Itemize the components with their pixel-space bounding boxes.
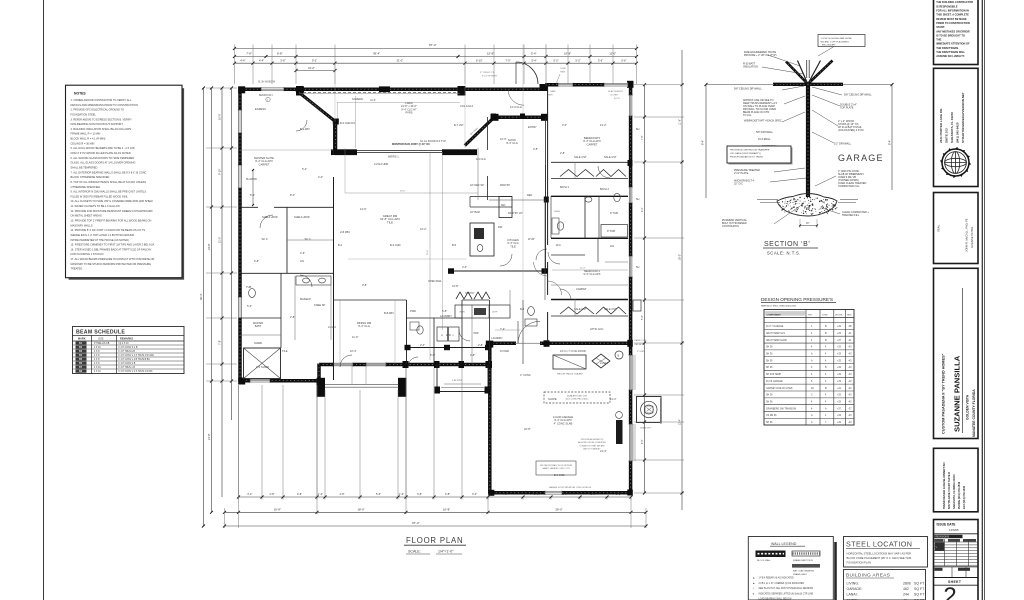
svg-text:RECON TRUSS TOA APX: RECON TRUSS TOA APX <box>557 373 583 376</box>
svg-text:9'-10": 9'-10" <box>218 168 222 175</box>
svg-text:CORE: CORE <box>560 68 566 70</box>
svg-text:2x6 FBC: 2x6 FBC <box>340 230 350 234</box>
svg-text:THE BUILDING CONTRACTOR: THE BUILDING CONTRACTOR <box>936 0 973 4</box>
svg-text:SL ACCESSOR: SL ACCESSOR <box>608 90 623 93</box>
svg-text:12'-2": 12'-2" <box>610 397 617 401</box>
svg-text:32" O/C: 32" O/C <box>734 183 743 186</box>
svg-text:4'-8": 4'-8" <box>470 353 475 357</box>
svg-text:FRAME WALL R = 11 MIN: FRAME WALL R = 11 MIN <box>71 132 101 136</box>
svg-text:SLOPE: SLOPE <box>548 397 557 401</box>
svg-text:SEAL: SEAL <box>937 224 941 232</box>
svg-text:IS RESPONSIBLE: IS RESPONSIBLE <box>936 4 958 8</box>
svg-text:9'-4" CLG: 9'-4" CLG <box>506 141 518 145</box>
svg-text:PDR: PDR <box>474 333 479 335</box>
svg-text:ANY MISTAKES OR ERROR: ANY MISTAKES OR ERROR <box>936 29 970 33</box>
svg-text:5H: 5H <box>636 265 639 269</box>
svg-text:CKTP: CKTP <box>492 312 498 314</box>
svg-text:SHELF+ROD: SHELF+ROD <box>294 215 310 219</box>
svg-text:SH 36: SH 36 <box>766 354 773 356</box>
svg-text:SALE CST: SALE CST <box>574 307 587 311</box>
svg-text:▲: ▲ <box>753 577 756 580</box>
svg-text:NON-BEARING NON KNOCKOUT SUPPO: NON-BEARING NON KNOCKOUT SUPPORT <box>71 122 124 126</box>
svg-text:CARPET: CARPET <box>259 162 270 166</box>
svg-text:COMPACTED FILL: COMPACTED FILL <box>838 185 860 188</box>
svg-text:5'-2": 5'-2" <box>302 167 307 171</box>
svg-text:CONTINUOUS: CONTINUOUS <box>722 225 739 228</box>
svg-text:SH 4X5 TEMP: SH 4X5 TEMP <box>766 374 782 376</box>
svg-text:F 4 P CONV 1 B: F 4 P CONV 1 B <box>119 363 136 365</box>
svg-text:OPEN RAIL: OPEN RAIL <box>428 279 442 283</box>
svg-text:15'-8": 15'-8" <box>487 52 494 56</box>
svg-text:2'-4": 2'-4" <box>420 343 425 347</box>
svg-text:LAUNDRY: LAUNDRY <box>491 337 503 340</box>
svg-text:TREATED: TREATED <box>71 267 83 271</box>
svg-text:(COLOCATED) 4 P OC: (COLOCATED) 4 P OC <box>838 129 864 132</box>
svg-text:MAKEUP: MAKEUP <box>300 297 311 301</box>
svg-text:ALMOND CROSS LOWERING: ALMOND CROSS LOWERING <box>578 441 606 444</box>
svg-text:10'-0": 10'-0" <box>500 137 507 141</box>
svg-text:4'-8": 4'-8" <box>340 493 345 496</box>
svg-text:16": 16" <box>806 223 810 225</box>
svg-text:OF LOADS (UPLIFT/GRAVITY): OF LOADS (UPLIFT/GRAVITY) <box>730 152 761 155</box>
svg-text:B-5: B-5 <box>452 243 457 247</box>
svg-text:ZONE: ZONE <box>822 314 828 316</box>
svg-text:SCALE: N.T.S.: SCALE: N.T.S. <box>767 251 801 256</box>
svg-text:5/8" CEILING DRYWALL: 5/8" CEILING DRYWALL <box>734 88 762 91</box>
svg-text:5'-2": 5'-2" <box>576 58 581 62</box>
svg-text:GARNEY DOE 3/4 LITES: GARNEY DOE 3/4 LITES <box>766 387 793 390</box>
svg-text:5'-4": 5'-4" <box>532 58 537 62</box>
svg-text:31'-2": 31'-2" <box>308 66 315 70</box>
svg-text:2-2x10: 2-2x10 <box>328 325 336 329</box>
svg-text:4 X 8: 4 X 8 <box>94 351 100 353</box>
svg-text:BEAM SCHEDULE: BEAM SCHEDULE <box>76 329 125 335</box>
svg-text:3'-8": 3'-8" <box>445 493 450 496</box>
svg-text:8'-4": 8'-4" <box>701 140 705 145</box>
svg-text:TO LVL: TO LVL <box>743 114 752 117</box>
svg-text:6. ALL SLIDING GLASS DOORS TO: 6. ALL SLIDING GLASS DOORS TO HAVE TEMPE… <box>71 156 135 160</box>
svg-text:2-2x12: 2-2x12 <box>600 361 608 365</box>
svg-text:TRIM: TRIM <box>560 72 565 74</box>
svg-text:4 X 8: 4 X 8 <box>94 363 100 365</box>
svg-text:5'-6": 5'-6" <box>430 353 435 357</box>
svg-text:LAUNDRY: LAUNDRY <box>440 315 452 318</box>
svg-text:SHELF+ROD: SHELF+ROD <box>262 215 278 219</box>
svg-text:20'-8": 20'-8" <box>524 427 531 431</box>
svg-text:W.I.C.: W.I.C. <box>305 238 312 241</box>
svg-text:5'-8": 5'-8" <box>442 309 447 313</box>
svg-text:FOUNDATION STEEL: FOUNDATION STEEL <box>71 112 97 116</box>
svg-text:SCREEN: SCREEN <box>352 97 363 101</box>
svg-text:GOLDEN VISTA: GOLDEN VISTA <box>966 394 970 420</box>
svg-text:GROSS: GROSS <box>835 314 843 316</box>
svg-text:F 4 P CONV L 4 X TRUS 4 W GRL: F 4 P CONV L 4 X TRUS 4 W GRL <box>119 355 155 357</box>
svg-text:CARPET: CARPET <box>576 287 587 291</box>
svg-text:NOTES: NOTES <box>74 92 86 96</box>
svg-text:COL 12x12: COL 12x12 <box>460 104 474 108</box>
svg-text:3'-4": 3'-4" <box>472 493 477 496</box>
svg-text:1 ROW OF 8d RING NAIL DETAIL: 1 ROW OF 8d RING NAIL DETAIL <box>821 37 854 40</box>
svg-text:STEEL LOCATION: STEEL LOCATION <box>846 540 912 549</box>
svg-text:12. PROVIDE FOR MOISTURE RESIS: 12. PROVIDE FOR MOISTURE RESISTANT GREEN… <box>71 209 153 213</box>
svg-text:WEDGE EXCL 1 2' TOP LAYER 1 4: WEDGE EXCL 1 2' TOP LAYER 1 4 BOTTOM ARO… <box>71 233 135 237</box>
svg-text:BATH: BATH <box>255 325 261 328</box>
svg-text:FILLED W 3000 PSI REBAR FILLED: FILLED W 3000 PSI REBAR FILLED WOOD GINL <box>71 194 129 198</box>
svg-text:2'-8": 2'-8" <box>478 343 483 347</box>
svg-text:STUARTOFERRERA#VERIZON.NET: STUARTOFERRERA#VERIZON.NET <box>961 92 965 143</box>
svg-text:2421 PORTER LAKE DR.: 2421 PORTER LAKE DR. <box>939 108 943 143</box>
svg-text:SQ FT: SQ FT <box>914 582 925 586</box>
svg-text:JOHN R. McCALL, PhD, PE: JOHN R. McCALL, PhD, PE <box>965 218 969 252</box>
svg-text:THE DRAFTSMAN WILL: THE DRAFTSMAN WILL <box>936 50 965 54</box>
svg-text:THE: THE <box>936 38 941 42</box>
svg-text:W.I.C.: W.I.C. <box>262 238 269 241</box>
svg-text:5/8" CEILING DRYWALL: 5/8" CEILING DRYWALL <box>844 94 872 97</box>
svg-text:B-2 OHD 8-0: B-2 OHD 8-0 <box>340 121 356 125</box>
svg-text:4'-4": 4'-4" <box>240 58 245 62</box>
svg-text:F 4 P CONV F 1 B: F 4 P CONV F 1 B <box>119 347 138 349</box>
svg-text:18'-0": 18'-0" <box>358 508 365 512</box>
svg-text:4. BUILDING INSULATION SHALL B: 4. BUILDING INSULATION SHALL BE AS FOLLO… <box>71 127 132 131</box>
svg-text:3'-6": 3'-6" <box>591 493 596 496</box>
svg-text:GARAGE DOOR TAP APX AT LITES G: GARAGE DOOR TAP APX AT LITES GOING IN <box>549 486 592 489</box>
svg-text:OTHERWISE SPECIFIED: OTHERWISE SPECIFIED <box>71 185 101 189</box>
svg-text:12'-0 CLG: 12'-0 CLG <box>510 105 522 109</box>
svg-text:2 FB 1 pc 1 FT 4 REBAR (4) AS: 2 FB 1 pc 1 FT 4 REBAR (4) AS INDICATED <box>759 582 805 585</box>
svg-text:INTIRE PERIMETER AT THE HOUSE: INTIRE PERIMETER AT THE HOUSE (AS NOTED) <box>71 238 130 242</box>
svg-text:PANTRY: PANTRY <box>465 292 475 295</box>
svg-text:PARTIALLY ENCLOSED BUILDING: PARTIALLY ENCLOSED BUILDING <box>761 305 796 308</box>
svg-text:4" CONC SLAB: 4" CONC SLAB <box>554 421 573 425</box>
svg-text:9'-0 TYP HGHT: 9'-0 TYP HGHT <box>482 76 498 78</box>
svg-text:31'-0": 31'-0" <box>397 58 404 62</box>
svg-text:GARAGE:: GARAGE: <box>847 587 863 591</box>
svg-text:12/5/05: 12/5/05 <box>949 528 959 532</box>
svg-text:REF: REF <box>527 193 533 197</box>
svg-text:THIS SHEET. A COMPLETE: THIS SHEET. A COMPLETE <box>936 13 969 17</box>
svg-text:3'-8": 3'-8" <box>534 493 539 496</box>
svg-text:20'-0": 20'-0" <box>427 249 429 255</box>
svg-text:PRIOR TO CONSTRUCTION: PRIOR TO CONSTRUCTION <box>936 21 970 25</box>
svg-text:4 X 10: 4 X 10 <box>94 371 101 373</box>
svg-text:F 4 P CONV L 4 B TRUS B BC: F 4 P CONV L 4 B TRUS B BC <box>119 359 151 361</box>
svg-text:11'-0": 11'-0" <box>352 335 358 339</box>
svg-text:21'-4": 21'-4" <box>600 449 607 453</box>
svg-text:PANTRY 24": PANTRY 24" <box>508 211 523 215</box>
svg-text:7'-8": 7'-8" <box>642 135 644 140</box>
svg-text:PROVIDE + 2" 28" OC (TYP): PROVIDE + 2" 28" OC (TYP) <box>744 54 777 57</box>
svg-text:5'-4": 5'-4" <box>642 315 644 320</box>
svg-text:5'-6": 5'-6" <box>598 58 603 62</box>
svg-text:10'-2": 10'-2" <box>420 227 427 231</box>
svg-text:FOUNDATION PLAN: FOUNDATION PLAN <box>847 561 872 565</box>
svg-text:LIN: LIN <box>300 259 304 263</box>
svg-text:7'-8": 7'-8" <box>246 52 252 56</box>
svg-text:IS TO BE BROUGHT TO: IS TO BE BROUGHT TO <box>936 33 965 37</box>
svg-text:FAX (941) 379-1036: FAX (941) 379-1036 <box>962 485 966 509</box>
svg-text:PROVIDE ALGERIA TOP: PROVIDE ALGERIA TOP <box>581 438 604 441</box>
svg-text:INDICATES SEPARED LIFTED (4) 8: INDICATES SEPARED LIFTED (4) 8x8x16 CTR … <box>759 592 814 595</box>
svg-text:42" REF SP: 42" REF SP <box>470 183 484 187</box>
svg-text:BLOCK WALL: BLOCK WALL <box>757 559 772 562</box>
svg-text:SHALL BE TEMPERED: SHALL BE TEMPERED <box>71 165 98 169</box>
svg-text:BATH 2: BATH 2 <box>600 187 609 191</box>
svg-text:19'-8": 19'-8" <box>370 100 376 102</box>
svg-text:DRAIN DET: DRAIN DET <box>640 427 652 430</box>
svg-text:FOYER: FOYER <box>500 349 509 353</box>
svg-text:FOR FLOORING 1 STUCCO.: FOR FLOORING 1 STUCCO. <box>71 252 105 256</box>
svg-text:ECOS: ECOS <box>614 98 620 100</box>
svg-text:SH 36: SH 36 <box>766 395 773 397</box>
svg-text:SH 36: SH 36 <box>766 422 773 424</box>
svg-text:29'-0": 29'-0" <box>556 508 563 512</box>
svg-text:8. TOP OF ALL WINDOW HEADS SHA: 8. TOP OF ALL WINDOW HEADS SHALL BE AT 6… <box>71 180 147 184</box>
svg-text:GLASS. ALL GLASS DOORS AT 1/4: GLASS. ALL GLASS DOORS AT 1/4 LOUVER OPE… <box>71 161 136 165</box>
svg-text:11. WATER CLOSETS TO BE 1.6 GA: 11. WATER CLOSETS TO BE 1.6 GALLON <box>71 204 120 208</box>
svg-text:9'-8": 9'-8" <box>362 283 367 287</box>
svg-text:FROM FOUNDATION TO TRUSS: FROM FOUNDATION TO TRUSS <box>730 156 763 159</box>
svg-text:2"x4" PLATE: 2"x4" PLATE <box>734 172 749 175</box>
svg-text:39'-4": 39'-4" <box>373 52 380 56</box>
svg-text:SHWR: SHWR <box>254 341 262 345</box>
svg-text:4'-8": 4'-8" <box>642 439 644 444</box>
svg-text:3'-2": 3'-2" <box>616 493 621 496</box>
svg-text:5'-0": 5'-0" <box>247 304 252 308</box>
svg-text:7'-4": 7'-4" <box>500 327 505 331</box>
svg-text:CUSTOM PASADENA II "BY TREND: CUSTOM PASADENA II "BY TREND HOMES" <box>942 353 946 434</box>
svg-text:11'-4": 11'-4" <box>580 268 586 270</box>
svg-text:FLOOR PLAN: FLOOR PLAN <box>406 536 463 545</box>
svg-text:1 FB 4 REBAR (4) AS INDICATED: 1 FB 4 REBAR (4) AS INDICATED <box>759 577 795 580</box>
svg-text:8'-0": 8'-0" <box>290 193 295 197</box>
svg-text:SH 36: SH 36 <box>766 401 773 403</box>
svg-text:GAME 1 GARAGE CODE 2 CTS: GAME 1 GARAGE CODE 2 CTS <box>542 467 570 470</box>
svg-text:4'-8": 4'-8" <box>297 493 302 496</box>
svg-text:12'-6": 12'-6" <box>360 207 367 211</box>
svg-text:PANTRY: PANTRY <box>500 183 511 187</box>
svg-text:1'-0": 1'-0" <box>318 493 323 496</box>
svg-text:MONITOR BAR JOIST @ 24" OC: MONITOR BAR JOIST @ 24" OC <box>392 143 430 146</box>
svg-text:2'-8": 2'-8" <box>270 493 275 496</box>
svg-text:FRAME PARTITION: FRAME PARTITION <box>793 559 813 562</box>
svg-text:PVRS: PVRS <box>405 111 412 115</box>
svg-text:SL 5H WINDOW: SL 5H WINDOW <box>258 82 276 84</box>
svg-text:11'-0": 11'-0" <box>218 237 222 243</box>
svg-text:SCALE:: SCALE: <box>408 550 421 554</box>
svg-text:SALE CST: SALE CST <box>604 307 617 311</box>
svg-text:TUB: TUB <box>246 285 251 289</box>
svg-text:MANATEE COUNTY FLORIDA: MANATEE COUNTY FLORIDA <box>972 389 976 437</box>
svg-text:F 4 P TRUS A B: F 4 P TRUS A B <box>119 350 136 353</box>
svg-text:B-6 OHD: B-6 OHD <box>554 473 565 477</box>
svg-text:4'-8": 4'-8" <box>503 493 508 496</box>
svg-text:FOR ALL INFORMATION IN: FOR ALL INFORMATION IN <box>936 9 969 13</box>
svg-text:9. ALL INTERIOR N CMU WALLS SH: 9. ALL INTERIOR N CMU WALLS SHALL BE PRE… <box>71 190 147 194</box>
svg-text:2. PROVIDE GFCI ELECTRICAL GR: 2. PROVIDE GFCI ELECTRICAL GROUND TO <box>71 108 125 112</box>
svg-text:10'-0": 10'-0" <box>218 113 222 120</box>
svg-text:8237 BLAIKIE COURT SUITE D: 8237 BLAIKIE COURT SUITE D <box>947 472 951 509</box>
svg-text:21'-8": 21'-8" <box>207 433 211 440</box>
svg-text:THE DRAFTSMAN.: THE DRAFTSMAN. <box>936 46 959 50</box>
svg-text:16'-0 x 7'-0 OH DOOR: 16'-0 x 7'-0 OH DOOR <box>560 349 586 353</box>
svg-text:16. STER HOSED 1 BBL FRAMES B: 16. STER HOSED 1 BBL FRAMES BACK AT TRIP… <box>71 247 152 251</box>
svg-text:CASE: CASE <box>550 90 556 93</box>
svg-text:16'-8": 16'-8" <box>274 508 281 512</box>
svg-text:3'-0": 3'-0" <box>562 123 567 127</box>
svg-text:11'-8": 11'-8" <box>679 119 682 125</box>
svg-text:16-3 ENGL: 16-3 ENGL <box>758 138 771 141</box>
svg-text:1. OWNER AND/OR CONTRACTOR TO: 1. OWNER AND/OR CONTRACTOR TO VERIFY ALL <box>71 98 132 102</box>
svg-text:DETAILS AND DIMENSIONS PRIOR T: DETAILS AND DIMENSIONS PRIOR TO CONSTRUC… <box>71 103 139 107</box>
svg-text:4 X 8: 4 X 8 <box>94 355 100 357</box>
svg-text:SALE CST: SALE CST <box>574 155 587 159</box>
svg-text:3'-8": 3'-8" <box>533 147 538 151</box>
svg-text:LIVING:: LIVING: <box>847 582 859 586</box>
svg-text:W 30": W 30" <box>528 237 535 241</box>
svg-text:IMMEDIATE ATTENTION OF: IMMEDIATE ATTENTION OF <box>936 42 970 46</box>
svg-text:5'-6": 5'-6" <box>621 58 626 62</box>
svg-text:BLOCK WALL R = 4.1 (R-MIN: BLOCK WALL R = 4.1 (R-MIN) <box>71 137 106 141</box>
svg-text:FRAME WALL: FRAME WALL <box>793 573 808 576</box>
svg-text:4'-0": 4'-0" <box>318 175 323 179</box>
svg-text:NOM 4' 6' PLYWOOD FILLER PLATE: NOM 4' 6' PLYWOOD FILLER PLATE AS AS NOT… <box>71 151 131 155</box>
svg-text:ASSUME NO LIABILITY.: ASSUME NO LIABILITY. <box>936 54 965 58</box>
svg-text:3'-0": 3'-0" <box>462 265 467 269</box>
svg-text:▲: ▲ <box>753 582 756 585</box>
svg-text:SECTION ‘B’: SECTION ‘B’ <box>764 241 810 248</box>
svg-text:42" BAR: 42" BAR <box>470 210 480 214</box>
svg-text:10. ALL CLOSETS TO HAVE VINYL: 10. ALL CLOSETS TO HAVE VINYL COVERED WI… <box>71 199 154 203</box>
svg-text:BUILDING AREAS: BUILDING AREAS <box>846 573 890 579</box>
svg-text:AND TV STANDBY: AND TV STANDBY <box>583 448 601 451</box>
svg-text:BATH 3: BATH 3 <box>560 185 569 189</box>
svg-text:SUITE 103: SUITE 103 <box>944 128 948 143</box>
svg-text:7'-0": 7'-0" <box>506 58 511 62</box>
svg-text:F 4 P TRUS 1 B: F 4 P TRUS 1 B <box>119 367 136 369</box>
svg-text:5/8" DRYWALL: 5/8" DRYWALL <box>756 131 774 134</box>
svg-text:REVIEW MUST BE MADE: REVIEW MUST BE MADE <box>936 17 967 21</box>
svg-text:REMARKS: REMARKS <box>120 337 133 341</box>
svg-text:13'-2": 13'-2" <box>600 123 607 127</box>
svg-text:WEIRS 1: WEIRS 1 <box>388 155 399 159</box>
svg-text:4'-4": 4'-4" <box>259 58 264 62</box>
svg-text:4'-0 SHWR: 4'-0 SHWR <box>256 365 269 369</box>
svg-text:2'-8": 2'-8" <box>290 315 295 319</box>
svg-text:24'-8": 24'-8" <box>207 243 211 250</box>
svg-text:SLAB APX UNO CTR: SLAB APX UNO CTR <box>567 395 587 398</box>
svg-text:DESIGN OPENING PRESSURE'S: DESIGN OPENING PRESSURE'S <box>761 297 833 302</box>
svg-text:LINEN: LINEN <box>554 211 560 213</box>
svg-text:ATTIC ACC: ATTIC ACC <box>590 327 603 331</box>
svg-text:6'-8": 6'-8" <box>254 259 259 263</box>
svg-text:11'-0": 11'-0" <box>609 52 616 56</box>
svg-text:W D: W D <box>446 333 451 337</box>
svg-text:F 4 P CONV L 4 X TRUS 4 W BC: F 4 P CONV L 4 X TRUS 4 W BC <box>119 371 153 373</box>
svg-text:3'-4": 3'-4" <box>247 493 252 496</box>
svg-text:5H WDW: 5H WDW <box>246 177 257 181</box>
svg-text:SH 36: SH 36 <box>766 367 773 369</box>
svg-text:7. ALL EXTERIOR BEARING WALLS: 7. ALL EXTERIOR BEARING WALLS SHALL BE 8… <box>71 170 147 174</box>
svg-text:9-4 CLG: 9-4 CLG <box>476 157 486 161</box>
svg-text:4 X 10: 4 X 10 <box>94 347 101 349</box>
svg-text:8'-4": 8'-4" <box>888 140 892 145</box>
svg-text:KNEE SP: KNEE SP <box>314 303 326 307</box>
svg-text:SARASOTA, FL 34240: SARASOTA, FL 34240 <box>950 112 954 143</box>
svg-text:SEE PLAN HGT CEL FDN SYSTEM WA: SEE PLAN HGT CEL FDN SYSTEM WALL REINFDS <box>759 587 814 590</box>
svg-text:PHONE (941) 379-4549: PHONE (941) 379-4549 <box>957 481 961 509</box>
svg-text:B-3 OHD: B-3 OHD <box>390 243 401 247</box>
svg-text:9' TUB: 9' TUB <box>607 229 615 233</box>
svg-text:SH 36: SH 36 <box>766 360 773 362</box>
svg-text:WALL LEGEND: WALL LEGEND <box>771 542 797 546</box>
svg-text:3'-8": 3'-8" <box>417 493 422 496</box>
svg-text:REVISIONS: REVISIONS <box>936 536 950 539</box>
svg-text:7'-8": 7'-8" <box>218 340 222 345</box>
svg-text:5'-6": 5'-6" <box>281 58 286 62</box>
svg-text:B-8: B-8 <box>520 307 525 311</box>
svg-text:MID AND 1 OFF PLACEMENT: MID AND 1 OFF PLACEMENT <box>821 41 850 44</box>
svg-text:16 X 7 GARAGE: 16 X 7 GARAGE <box>766 325 784 328</box>
svg-text:MARK: MARK <box>78 338 86 341</box>
svg-text:4 X 10: 4 X 10 <box>94 367 101 369</box>
svg-text:TILE: TILE <box>510 244 516 248</box>
svg-text:TILE: TILE <box>387 220 393 224</box>
svg-text:FBC 2304 APX: FBC 2304 APX <box>822 44 836 47</box>
svg-text:2'-8": 2'-8" <box>560 151 565 155</box>
svg-text:COMPONENT: COMPONENT <box>767 314 782 316</box>
svg-text:B-8 ABV: B-8 ABV <box>384 311 394 315</box>
svg-text:ARCH TEMP GLDR: ARCH TEMP GLDR <box>766 339 787 342</box>
svg-text:ARCH TEMP GLS: ARCH TEMP GLS <box>766 332 785 335</box>
svg-text:SALE CST: SALE CST <box>604 155 617 159</box>
svg-text:GRANBERG SW TRANSOM: GRANBERG SW TRANSOM <box>766 407 796 410</box>
svg-text:GARAGE: GARAGE <box>838 153 884 163</box>
svg-text:SL GL DOOR 8-0 TYP: SL GL DOOR 8-0 TYP <box>420 139 446 143</box>
svg-text:W.C.: W.C. <box>556 243 562 247</box>
svg-text:MASONRY WALLS: MASONRY WALLS <box>71 223 93 227</box>
svg-text:MASONRY TO BE STUDIO PERFORM: MASONRY TO BE STUDIO PERFORM PROTECTED O… <box>71 262 152 266</box>
svg-text:16 X3 GARAGE: 16 X3 GARAGE <box>766 380 783 383</box>
svg-text:W/BRACKET NPT 4 EACH SPEC: W/BRACKET NPT 4 EACH SPEC <box>744 120 782 123</box>
svg-text:LANAI:: LANAI: <box>847 593 858 597</box>
svg-text:3A: 3A <box>811 387 814 390</box>
svg-text:SQ FT: SQ FT <box>914 587 925 591</box>
svg-text:5'-4": 5'-4" <box>531 52 537 56</box>
svg-text:1'-0": 1'-0" <box>399 493 404 496</box>
svg-text:TILE: TILE <box>282 349 288 353</box>
svg-text:4" STEP: 4" STEP <box>637 351 645 353</box>
svg-text:(941) 342-6425: (941) 342-6425 <box>956 122 960 143</box>
svg-text:INSULATION: INSULATION <box>743 66 758 69</box>
svg-text:BLOCK OTHERWISE SPECIFIED: BLOCK OTHERWISE SPECIFIED <box>71 175 110 179</box>
svg-text:5'-4": 5'-4" <box>250 193 255 197</box>
svg-text:15. FIRESTORE CHIMENEY TO FIRS: 15. FIRESTORE CHIMENEY TO FIRST 1M TIPS … <box>71 243 156 247</box>
svg-text:CARPET: CARPET <box>587 142 598 146</box>
svg-text:14. PROVIDE 8' X 3/4' FORT 1 F: 14. PROVIDE 8' X 3/4' FORT 1 FOAM FOR TI… <box>71 228 146 232</box>
svg-text:10'-8": 10'-8" <box>564 52 571 56</box>
svg-text:16'-8": 16'-8" <box>443 508 450 512</box>
svg-text:1/2" DRYWALL: 1/2" DRYWALL <box>834 143 852 146</box>
svg-text:ISSUE DATE: ISSUE DATE <box>937 522 956 526</box>
svg-text:NEG: NEG <box>847 314 852 316</box>
svg-text:PROVIDE A CONTINUOUS TRANSFER: PROVIDE A CONTINUOUS TRANSFER <box>730 149 770 152</box>
svg-text:B-4: B-4 <box>338 243 343 247</box>
svg-text:16'-8": 16'-8" <box>452 284 459 288</box>
svg-text:3. REFER ABOVE TO EGRESS SECTI: 3. REFER ABOVE TO EGRESS SECTION B. VERI… <box>71 117 133 121</box>
svg-text:10'-4": 10'-4" <box>350 349 357 353</box>
svg-text:SQ FT: SQ FT <box>914 593 925 597</box>
svg-text:26'-0": 26'-0" <box>679 254 682 260</box>
